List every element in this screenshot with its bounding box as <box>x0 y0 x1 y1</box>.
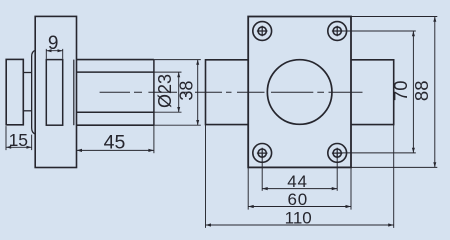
dim 70 extension from top-right screw center <box>337 30 416 32</box>
dim 70 arrows <box>412 31 415 153</box>
end face extension down to 45 dim <box>153 125 155 153</box>
svg-text:9: 9 <box>48 33 59 54</box>
svg-text:45: 45 <box>104 131 126 153</box>
dim o23 arrows <box>177 72 180 112</box>
spring clip (C-profile against plate face) <box>32 50 36 134</box>
dim 45 line <box>77 149 154 151</box>
dim 70 extension from bottom-right screw center <box>337 152 416 154</box>
shaft o23 bottom edge <box>77 111 154 113</box>
o38 bottom extension <box>154 124 201 126</box>
cylinder end face <box>153 60 155 126</box>
cylinder face line behind plate <box>73 60 75 126</box>
screw bottom-left <box>253 144 272 163</box>
dim 44 arrows <box>262 187 337 190</box>
dim 9 line <box>46 50 62 52</box>
dim 110 arrows <box>206 223 394 226</box>
dim 88 arrows <box>433 17 436 168</box>
right view: left shaft stub <box>206 60 249 125</box>
dim 88 line <box>434 17 436 168</box>
svg-text:60: 60 <box>288 190 309 209</box>
dim 110 line <box>206 224 394 226</box>
cylinder o38 top edge <box>77 59 154 61</box>
o23 top extension to o23 dim <box>154 71 182 73</box>
svg-text:88: 88 <box>411 81 432 102</box>
cylinder boss through plate (9 wide) <box>46 60 62 126</box>
centerline (dash-dot axis) <box>100 91 363 93</box>
dim 38 line (vertical) <box>197 60 199 126</box>
dim 60 extension lines <box>247 167 249 209</box>
dim 60 arrows <box>248 205 351 208</box>
svg-text:110: 110 <box>285 208 312 227</box>
screw bottom-right <box>328 144 347 163</box>
dim 38 arrows <box>196 60 199 126</box>
stem lower edge <box>23 110 31 112</box>
dim 44 extension lines through bottom screws <box>261 153 263 191</box>
cylinder bore (big circle) <box>267 60 332 125</box>
svg-text:Ø23: Ø23 <box>155 74 175 108</box>
dim 15 extension lines <box>5 126 7 150</box>
screw top-left <box>253 22 272 41</box>
stem upper edge <box>23 72 31 74</box>
dim 45 arrows <box>77 149 154 152</box>
svg-text:70: 70 <box>390 81 411 102</box>
dim 88 extension bottom (plate bottom extended) <box>351 166 437 168</box>
knob (left cap, side view) <box>6 59 23 124</box>
dim 9 extension lines <box>45 49 47 59</box>
shaft o23 top edge <box>77 71 154 73</box>
dim 15 line <box>6 146 32 148</box>
o23 bottom extension <box>154 111 182 113</box>
dim 110 extension lines <box>205 125 207 228</box>
screw top-right <box>328 22 347 41</box>
dim 60 line <box>248 206 351 208</box>
dim 15 arrows <box>6 146 32 149</box>
dim 44 line <box>262 188 337 190</box>
dim 9 arrows <box>46 49 62 52</box>
o38 top extension to 38 dim <box>154 59 201 61</box>
svg-text:15: 15 <box>9 130 28 150</box>
dim 70 line <box>412 31 414 153</box>
dim o23 line (vertical) <box>178 72 180 112</box>
cylinder o38 bottom edge <box>77 124 154 126</box>
right view: right shaft stub <box>351 60 394 125</box>
dim 88 extension top (plate top extended) <box>351 16 437 18</box>
right view: mounting plate face <box>248 17 351 168</box>
svg-text:38: 38 <box>176 81 196 101</box>
mounting plate (edge view) <box>35 16 76 167</box>
svg-text:44: 44 <box>287 172 308 191</box>
